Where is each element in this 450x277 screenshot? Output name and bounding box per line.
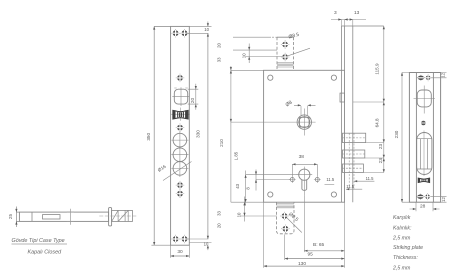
top tab hatch bbox=[277, 63, 294, 67]
svg-text:28: 28 bbox=[420, 204, 426, 210]
latch slot bbox=[417, 133, 432, 175]
svg-text:Thickness:: Thickness: bbox=[393, 255, 418, 261]
single screw lower bbox=[176, 124, 184, 132]
bottom screw pair bbox=[171, 235, 179, 243]
svg-text:33: 33 bbox=[216, 211, 221, 216]
latch centre line bbox=[99, 215, 136, 217]
svg-text:20: 20 bbox=[216, 43, 221, 48]
hook block 2 bbox=[343, 150, 365, 158]
bottom screws bbox=[416, 194, 424, 200]
dimension 10 top bbox=[189, 22, 211, 27]
svg-text:20: 20 bbox=[216, 223, 221, 228]
hook block 1 bbox=[343, 133, 366, 142]
svg-text:8: 8 bbox=[246, 187, 251, 190]
plate bend lines bbox=[416, 73, 433, 203]
hook block 3 bbox=[343, 164, 364, 173]
svg-text:11.5: 11.5 bbox=[346, 184, 355, 189]
bottom tab screw 2 bbox=[281, 225, 289, 233]
svg-text:30: 30 bbox=[177, 249, 183, 255]
centre screw dot bbox=[421, 121, 426, 126]
dim extension lines bottom bbox=[264, 196, 345, 268]
circle hole 3 bbox=[173, 162, 187, 176]
case body side view bbox=[19, 212, 108, 221]
svg-text:33: 33 bbox=[216, 57, 221, 62]
svg-text:2,5 mm: 2,5 mm bbox=[392, 265, 411, 271]
bottom tab screw 1 bbox=[280, 212, 288, 220]
svg-text:Kalınlık:: Kalınlık: bbox=[393, 225, 412, 231]
dimension 43 bbox=[245, 171, 247, 206]
svg-text:10: 10 bbox=[204, 241, 209, 246]
svg-text:11.5: 11.5 bbox=[366, 176, 375, 181]
ext line L85 spindle bbox=[231, 121, 297, 123]
spindle follower bbox=[297, 115, 311, 129]
svg-text:2,5 mm: 2,5 mm bbox=[392, 236, 411, 242]
dimension 23 23 bbox=[383, 143, 385, 173]
svg-text:330: 330 bbox=[196, 130, 201, 138]
leader Ø8.5 bottom bbox=[287, 218, 302, 233]
single screw upper bbox=[176, 74, 184, 82]
svg-text:B: 65: B: 65 bbox=[313, 242, 325, 248]
circle hole 1 bbox=[173, 133, 187, 147]
dimension 28 bbox=[416, 202, 433, 211]
dimension 230 bbox=[401, 73, 403, 203]
bottom tab bbox=[277, 202, 295, 234]
svg-text:Ø8.5: Ø8.5 bbox=[288, 32, 300, 41]
svg-text:20: 20 bbox=[190, 98, 195, 104]
deadbolt hole bbox=[417, 90, 431, 107]
striking plate outline bbox=[409, 73, 440, 203]
faceplate rectangle bbox=[171, 26, 190, 245]
svg-text:L.85: L.85 bbox=[233, 151, 238, 160]
dimension 30 bbox=[171, 245, 190, 258]
top tab bbox=[277, 36, 294, 38]
fixing hole left bbox=[289, 176, 296, 183]
svg-text:3: 3 bbox=[334, 10, 337, 16]
svg-text:Gövde Tipi Case Type: Gövde Tipi Case Type bbox=[12, 238, 65, 244]
faceplate edge lines bbox=[342, 26, 345, 202]
svg-text:12: 12 bbox=[441, 72, 446, 77]
svg-text:23: 23 bbox=[378, 144, 383, 150]
corner hole TL bbox=[268, 75, 273, 80]
svg-text:210: 210 bbox=[219, 139, 224, 147]
svg-text:Kapalı Closed: Kapalı Closed bbox=[28, 250, 63, 256]
svg-text:Ø16: Ø16 bbox=[157, 164, 167, 173]
dimension 330 bbox=[207, 33, 209, 239]
svg-text:25: 25 bbox=[8, 214, 13, 220]
leader bottom bbox=[186, 238, 208, 240]
dimension 25 line bbox=[16, 207, 19, 228]
circle hole 2 bbox=[173, 148, 187, 162]
svg-text:38: 38 bbox=[299, 154, 305, 160]
dimension 8 bbox=[255, 170, 257, 191]
Ø16 leader bbox=[163, 162, 192, 181]
fixing holes ext line bbox=[256, 179, 290, 181]
svg-text:Striking plate: Striking plate bbox=[393, 245, 423, 251]
svg-text:12: 12 bbox=[441, 197, 446, 202]
svg-text:23: 23 bbox=[378, 158, 383, 164]
leader to 330 dim bbox=[186, 32, 208, 34]
corner hole BR bbox=[331, 192, 336, 197]
case inner divider bbox=[31, 212, 33, 221]
svg-text:350: 350 bbox=[146, 133, 151, 141]
svg-text:Ø8.5: Ø8.5 bbox=[287, 211, 299, 223]
vertical screw pair bbox=[176, 181, 184, 189]
keyhole centre ext line bbox=[246, 174, 299, 176]
ext body top to stack bbox=[231, 70, 264, 202]
dimension 10 top tab bbox=[233, 50, 284, 56]
dimension 12 bottom bbox=[431, 197, 447, 203]
corner hole TR bbox=[331, 75, 336, 80]
svg-text:Ø8: Ø8 bbox=[285, 99, 294, 108]
deadbolt bump bbox=[340, 93, 345, 102]
top screws bbox=[417, 75, 425, 81]
dimension 12 top bbox=[431, 73, 447, 78]
dimension 20 cylinder bbox=[188, 84, 199, 110]
dimension 10 bottom tab bbox=[244, 197, 246, 222]
svg-text:43: 43 bbox=[235, 183, 240, 188]
left dim stack: L85 line bbox=[230, 66, 232, 202]
case centre line bbox=[69, 209, 71, 225]
svg-text:10: 10 bbox=[237, 212, 242, 217]
leader Ø8.5 top bbox=[287, 48, 311, 56]
top tab screw 1 bbox=[281, 40, 289, 48]
dimension 10 bottom bbox=[189, 243, 211, 251]
dimension 64.8 bbox=[383, 102, 385, 143]
svg-text:115.9: 115.9 bbox=[375, 63, 380, 75]
corner hole BL bbox=[268, 192, 273, 197]
svg-text:Karşılık: Karşılık bbox=[393, 215, 411, 221]
svg-text:13: 13 bbox=[354, 10, 360, 16]
extension lines bbox=[151, 26, 170, 245]
top screw pair bbox=[171, 29, 179, 37]
svg-text:11.5: 11.5 bbox=[326, 177, 335, 182]
dimension Ø8 spindle bbox=[301, 106, 308, 115]
latch cutout bowtie bbox=[418, 178, 429, 182]
case label plate bbox=[43, 215, 61, 219]
svg-text:10: 10 bbox=[204, 27, 209, 32]
ext line 102 bbox=[353, 101, 384, 103]
cylinder hole bbox=[174, 89, 187, 104]
euro cylinder hole bbox=[299, 169, 310, 180]
latch bolt side view bbox=[112, 210, 133, 221]
dimension 3 and 13 bbox=[342, 20, 353, 27]
latch bolt front view bbox=[171, 108, 190, 121]
svg-text:64.8: 64.8 bbox=[375, 118, 380, 127]
dimension 38 bbox=[292, 164, 317, 176]
case edge right bbox=[352, 26, 354, 202]
body outline bbox=[264, 70, 345, 202]
svg-text:10: 10 bbox=[242, 53, 247, 58]
bottom tab hatch bbox=[277, 204, 295, 208]
dimension 115.9 bbox=[383, 26, 385, 102]
top tab screw 2 bbox=[281, 53, 289, 61]
strip top edge + ext bbox=[342, 25, 384, 27]
svg-text:95: 95 bbox=[308, 251, 314, 257]
faceplate edge bar bbox=[109, 208, 112, 226]
fixing hole right bbox=[314, 176, 321, 183]
svg-text:230: 230 bbox=[394, 130, 399, 138]
hook internal dashes bbox=[349, 133, 354, 189]
